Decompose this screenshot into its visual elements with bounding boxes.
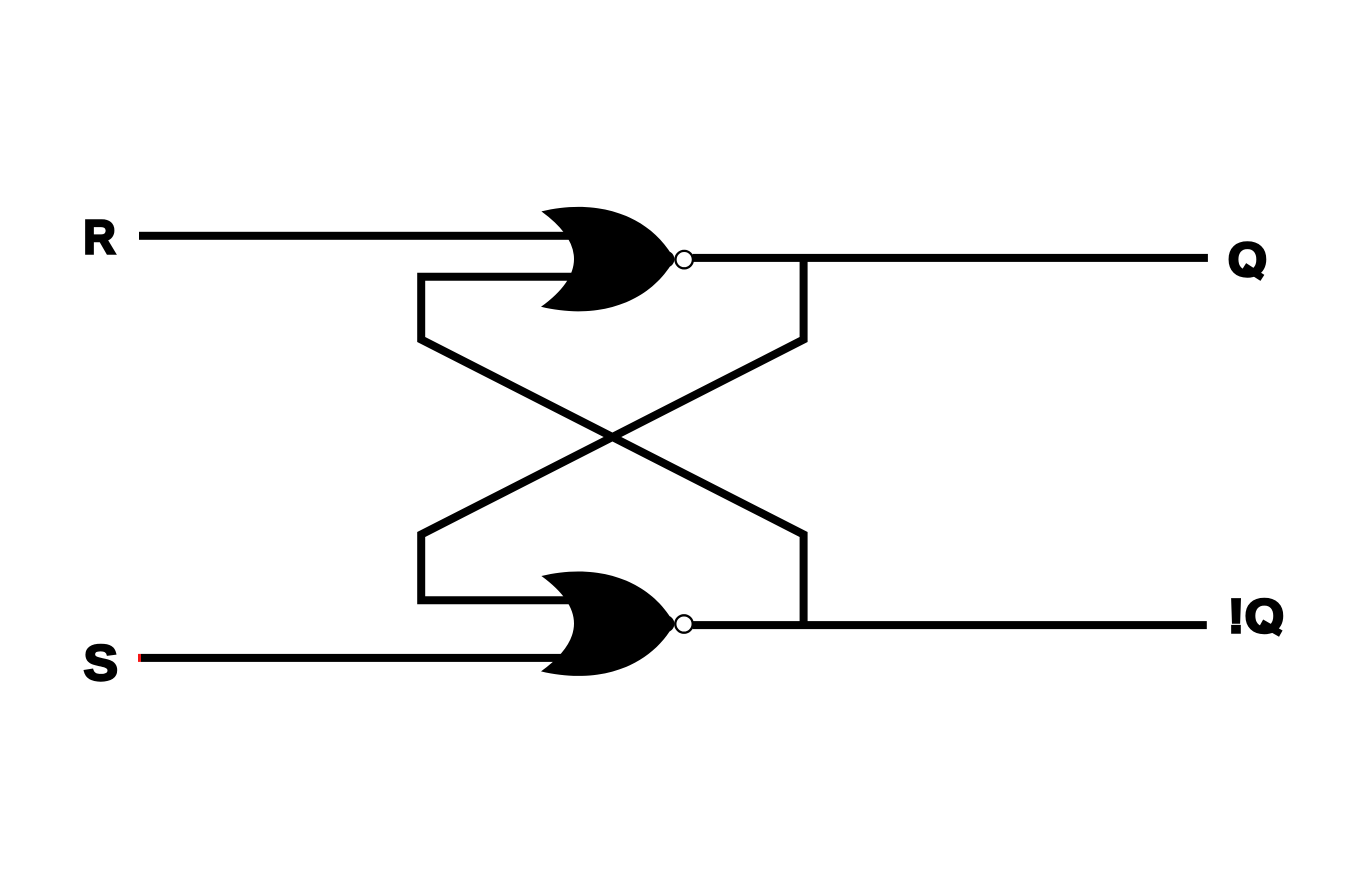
wire S input red endpoint: [138, 654, 141, 662]
svg-text:S: S: [84, 635, 119, 691]
NOR gate U2 output bubble: [675, 615, 692, 632]
wire S input: [141, 654, 575, 662]
svg-text:!O: !O: [1228, 591, 1284, 644]
wire !Q feedback to upper gate input (from !Q line up-left cross): [421, 277, 803, 625]
NOR gate U1 output bubble: [676, 251, 693, 268]
wire !Q output: [693, 621, 1207, 629]
wire Q feedback to lower gate input (from Q line down-left cross): [421, 258, 803, 600]
label Q (tail): [1244, 266, 1262, 278]
svg-text:R: R: [83, 212, 116, 265]
NOR gate U2 body (bottom): [541, 571, 674, 675]
wire R input: [139, 232, 575, 240]
wire Q output: [693, 254, 1208, 262]
NOR gate U1 body (top): [541, 207, 674, 311]
label !Q (tail): [1261, 623, 1280, 634]
